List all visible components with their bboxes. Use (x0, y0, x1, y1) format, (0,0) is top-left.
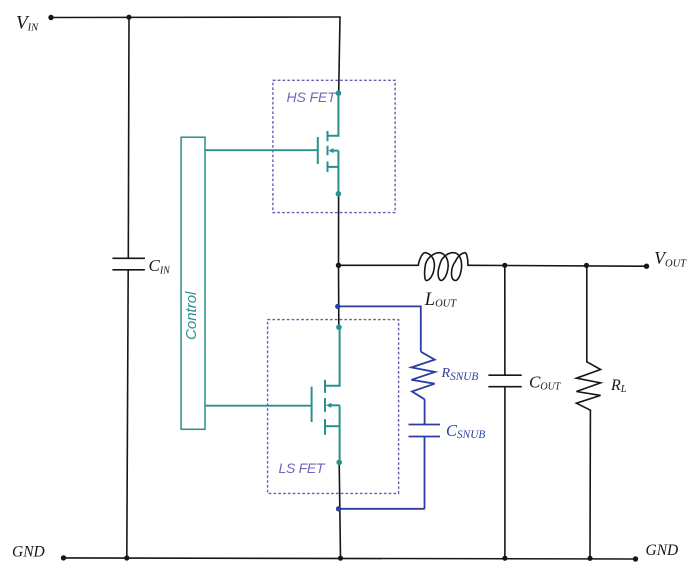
svg-text:GND: GND (646, 542, 679, 559)
svg-text:GND: GND (12, 543, 45, 560)
svg-text:HS FET: HS FET (287, 89, 338, 105)
svg-text:Control: Control (183, 291, 200, 340)
svg-text:LS FET: LS FET (279, 460, 326, 476)
